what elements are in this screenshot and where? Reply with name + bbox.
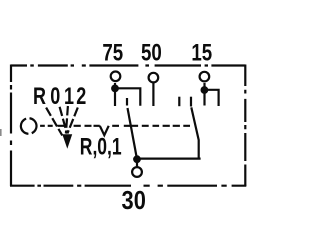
svg-text:15: 15 [191, 39, 212, 66]
svg-text:50: 50 [141, 39, 162, 66]
svg-text:0: 0 [50, 84, 60, 110]
svg-text:75: 75 [102, 39, 123, 66]
svg-text:2: 2 [76, 84, 86, 110]
svg-text:30: 30 [122, 186, 146, 215]
svg-text:R: R [33, 84, 46, 110]
svg-text:1: 1 [64, 84, 74, 110]
svg-text:R,0,1: R,0,1 [80, 134, 122, 160]
